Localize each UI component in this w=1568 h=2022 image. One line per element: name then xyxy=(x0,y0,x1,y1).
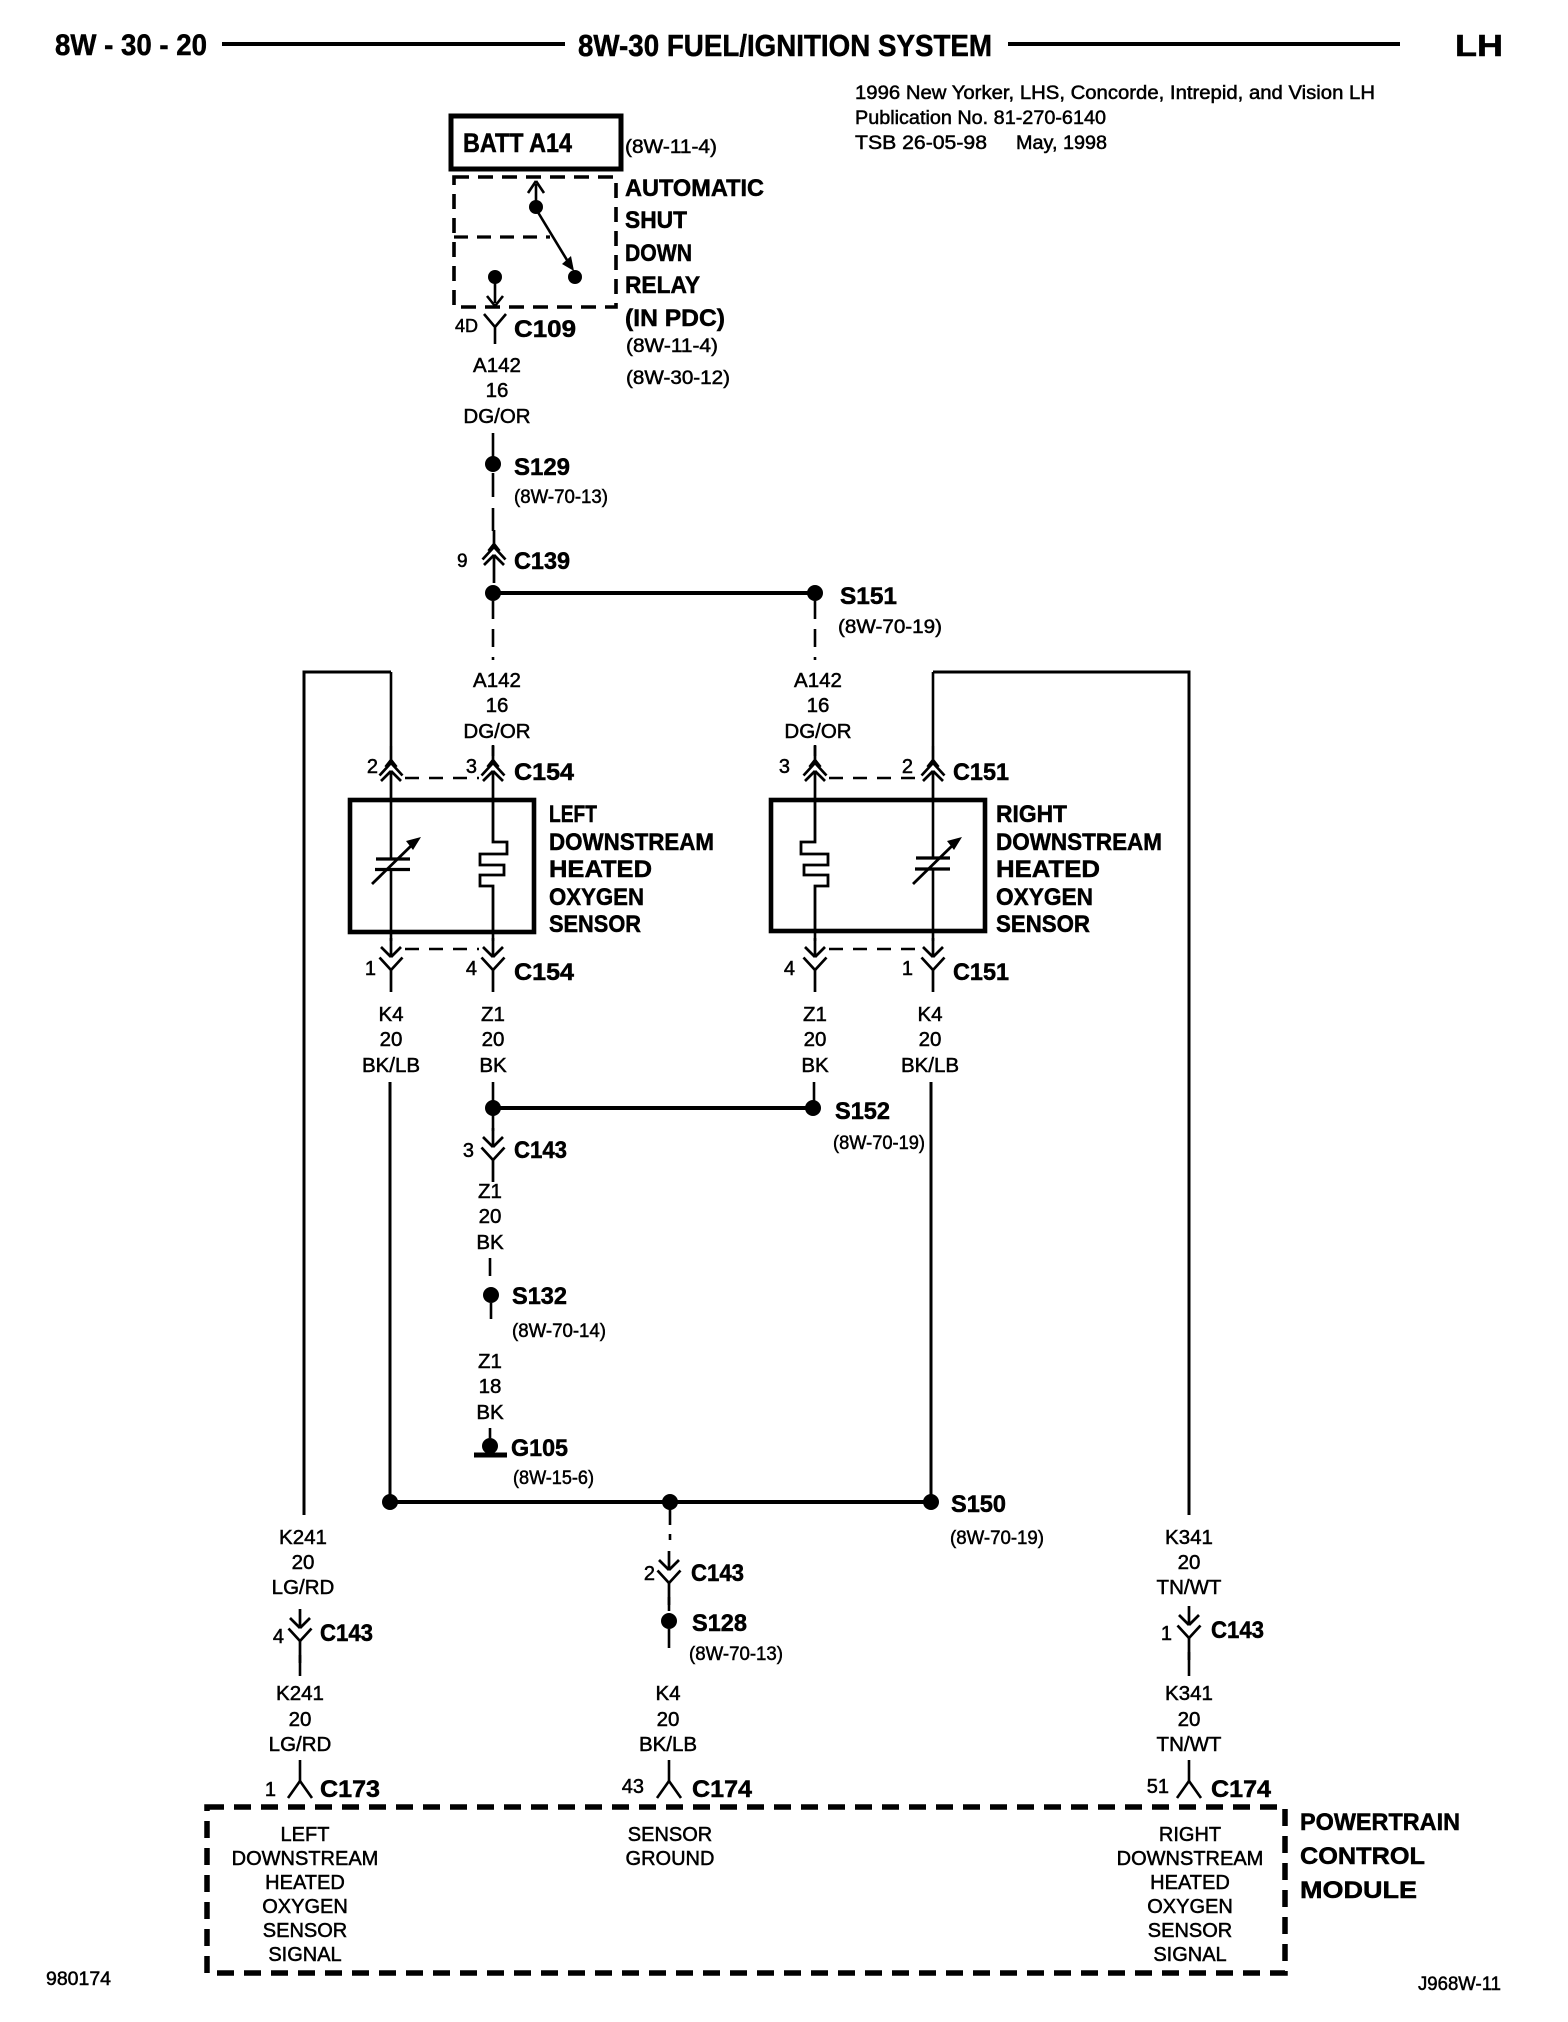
wire C143 pin2 to S128 xyxy=(668,1597,671,1611)
svg-text:9: 9 xyxy=(457,551,468,572)
svg-text:DG/OR: DG/OR xyxy=(463,405,530,428)
svg-text:AUTOMATIC: AUTOMATIC xyxy=(625,175,764,202)
svg-text:SENSOR: SENSOR xyxy=(263,1920,347,1942)
svg-text:4: 4 xyxy=(784,958,795,980)
svg-text:(8W-70-14): (8W-70-14) xyxy=(512,1321,606,1342)
svg-text:16: 16 xyxy=(486,694,509,717)
svg-text:K241: K241 xyxy=(279,1526,327,1549)
battery feed box BATT A14 xyxy=(451,116,717,169)
connector C151 top row pins 3,2 xyxy=(779,746,1009,799)
svg-text:S129: S129 xyxy=(514,454,570,481)
wire A142 16 DG/OR label (right branch) xyxy=(784,669,851,743)
relay K1 automatic shut down relay (in PDC) dashed box xyxy=(454,177,616,307)
svg-text:980174: 980174 xyxy=(46,1969,111,1990)
svg-text:4D: 4D xyxy=(455,316,478,336)
svg-text:LG/RD: LG/RD xyxy=(269,1733,332,1756)
svg-text:A142: A142 xyxy=(794,669,842,692)
svg-text:(8W-70-19): (8W-70-19) xyxy=(950,1528,1044,1549)
svg-text:K341: K341 xyxy=(1165,1682,1213,1705)
svg-text:SENSOR: SENSOR xyxy=(549,911,641,938)
connector C109 pin 4D xyxy=(455,314,576,344)
wire Z1 20 BK label (below C143) xyxy=(476,1180,504,1254)
wire left pin3 stub xyxy=(492,745,495,756)
svg-text:3: 3 xyxy=(463,1140,474,1162)
svg-text:K4: K4 xyxy=(917,1003,942,1026)
wire stub to S129 xyxy=(492,433,495,457)
wire junction to S151 xyxy=(493,591,815,595)
PCM pin function text right xyxy=(1117,1824,1264,1966)
svg-text:C143: C143 xyxy=(514,1137,567,1164)
svg-text:DOWNSTREAM: DOWNSTREAM xyxy=(996,829,1162,856)
wire to S132 xyxy=(489,1258,492,1276)
wire right K4 down to S150 xyxy=(930,1082,933,1502)
wire right signal branch corner xyxy=(933,672,1189,1515)
connector C143 pin 1 xyxy=(1161,1606,1264,1660)
svg-text:OXYGEN: OXYGEN xyxy=(262,1896,348,1918)
PCM pin function text middle xyxy=(626,1824,715,1870)
svg-text:20: 20 xyxy=(1178,1708,1201,1731)
svg-text:MODULE: MODULE xyxy=(1300,1877,1417,1904)
svg-text:BK/LB: BK/LB xyxy=(639,1733,697,1756)
splice S132 xyxy=(483,1283,606,1342)
splice S128 xyxy=(661,1610,783,1665)
wire A142 16 DG/OR label (left branch) xyxy=(463,669,530,743)
svg-text:18: 18 xyxy=(479,1375,502,1398)
svg-text:(8W-15-6): (8W-15-6) xyxy=(513,1468,594,1489)
svg-text:20: 20 xyxy=(1178,1551,1201,1574)
svg-text:C151: C151 xyxy=(953,759,1009,786)
svg-text:May, 1998: May, 1998 xyxy=(1016,133,1107,154)
svg-text:SIGNAL: SIGNAL xyxy=(1153,1944,1226,1966)
relay common pivot node xyxy=(529,200,543,214)
svg-text:2: 2 xyxy=(367,756,378,778)
svg-text:RELAY: RELAY xyxy=(625,272,700,299)
wire S152 junction into C143 pin3 xyxy=(492,1115,495,1131)
wire to G105 xyxy=(489,1428,492,1438)
svg-text:BK: BK xyxy=(476,1231,504,1254)
wire Z1 18 BK label xyxy=(476,1350,504,1424)
svg-text:C174: C174 xyxy=(1211,1776,1272,1803)
connector C143 pin 3 xyxy=(463,1128,567,1182)
svg-text:DOWNSTREAM: DOWNSTREAM xyxy=(1117,1848,1264,1870)
connector C173 pin 1 xyxy=(265,1760,380,1803)
splice S150 xyxy=(923,1491,1044,1549)
svg-text:K241: K241 xyxy=(276,1682,324,1705)
svg-text:C143: C143 xyxy=(1211,1617,1264,1644)
svg-text:C151: C151 xyxy=(953,959,1009,986)
svg-text:S150: S150 xyxy=(951,1491,1006,1518)
svg-text:16: 16 xyxy=(807,694,830,717)
svg-text:J968W-11: J968W-11 xyxy=(1418,1974,1501,1995)
svg-text:3: 3 xyxy=(779,756,790,778)
svg-text:BK/LB: BK/LB xyxy=(362,1054,420,1077)
svg-text:4: 4 xyxy=(273,1626,284,1648)
wire right box pin4 into box xyxy=(814,931,817,941)
svg-text:8W - 30 - 20: 8W - 30 - 20 xyxy=(55,29,207,62)
svg-text:51: 51 xyxy=(1147,1776,1169,1798)
svg-text:BATT A14: BATT A14 xyxy=(463,128,572,158)
svg-text:1: 1 xyxy=(365,958,376,980)
svg-text:Z1: Z1 xyxy=(803,1003,827,1026)
svg-text:POWERTRAIN: POWERTRAIN xyxy=(1300,1809,1460,1836)
svg-text:SENSOR: SENSOR xyxy=(996,911,1090,938)
svg-text:2: 2 xyxy=(902,756,913,778)
svg-text:(8W-70-19): (8W-70-19) xyxy=(833,1133,925,1154)
junction node left of S152 xyxy=(485,1100,501,1116)
PCM name text xyxy=(1300,1809,1460,1904)
svg-text:1996 New Yorker, LHS, Concorde: 1996 New Yorker, LHS, Concorde, Intrepid… xyxy=(855,83,1375,104)
relay switch blade xyxy=(536,209,574,271)
svg-text:C174: C174 xyxy=(692,1776,753,1803)
svg-text:(8W-11-4): (8W-11-4) xyxy=(625,137,717,158)
svg-text:(8W-70-19): (8W-70-19) xyxy=(838,617,942,638)
svg-text:SENSOR: SENSOR xyxy=(1148,1920,1232,1942)
svg-text:DOWNSTREAM: DOWNSTREAM xyxy=(549,829,714,856)
splice S152 xyxy=(805,1098,925,1154)
svg-text:OXYGEN: OXYGEN xyxy=(1147,1896,1233,1918)
svg-text:43: 43 xyxy=(622,1776,644,1798)
wire K4 20 BK/LB label (left) xyxy=(362,1003,420,1077)
wire Z1 20 BK label (left) xyxy=(479,1003,507,1077)
relay output contact node xyxy=(568,270,582,284)
ground G105 xyxy=(474,1435,594,1489)
svg-text:C154: C154 xyxy=(514,959,575,986)
svg-text:LEFT: LEFT xyxy=(281,1824,330,1846)
svg-text:Publication No. 81-270-6140: Publication No. 81-270-6140 xyxy=(855,108,1106,129)
svg-text:CONTROL: CONTROL xyxy=(1300,1843,1425,1870)
wire K341 20 TN/WT label (upper) xyxy=(1157,1526,1222,1599)
svg-text:BK: BK xyxy=(801,1054,829,1077)
svg-text:(8W-11-4): (8W-11-4) xyxy=(626,336,718,357)
svg-text:Z1: Z1 xyxy=(478,1350,502,1373)
right sensor name text xyxy=(996,801,1162,938)
svg-text:S151: S151 xyxy=(840,583,897,610)
svg-text:Z1: Z1 xyxy=(481,1003,505,1026)
svg-text:(8W-70-13): (8W-70-13) xyxy=(514,487,608,508)
wire C143 pin1 down xyxy=(1188,1652,1191,1676)
svg-text:C109: C109 xyxy=(514,316,576,343)
connector C143 pin 2 xyxy=(644,1551,744,1605)
connector C174 pin 43 xyxy=(622,1760,753,1803)
svg-text:(8W-30-12): (8W-30-12) xyxy=(626,368,730,389)
svg-text:1: 1 xyxy=(265,1779,276,1801)
svg-text:A142: A142 xyxy=(473,669,521,692)
junction node below C139 xyxy=(485,585,501,601)
wire from S150 middle junction down xyxy=(669,1509,672,1540)
svg-text:GROUND: GROUND xyxy=(626,1848,715,1870)
wire K241 20 LG/RD label (lower) xyxy=(269,1682,332,1756)
svg-text:(8W-70-13): (8W-70-13) xyxy=(689,1644,783,1665)
wire left box pin4 into box xyxy=(492,932,495,941)
svg-text:2: 2 xyxy=(644,1563,655,1585)
left sensor variable element xyxy=(372,800,414,932)
connector C154 top row pins 2,3 xyxy=(367,746,575,799)
svg-text:DOWNSTREAM: DOWNSTREAM xyxy=(232,1848,379,1870)
svg-text:3: 3 xyxy=(466,756,477,778)
right sensor heater element xyxy=(801,800,828,931)
junction node middle of S150 line xyxy=(662,1494,678,1510)
svg-text:K341: K341 xyxy=(1165,1526,1213,1549)
svg-text:C173: C173 xyxy=(320,1776,380,1803)
svg-text:SHUT: SHUT xyxy=(625,207,687,234)
relay output terminal down arrow xyxy=(487,283,503,306)
svg-text:4: 4 xyxy=(466,958,477,980)
svg-text:HEATED: HEATED xyxy=(265,1872,345,1894)
svg-text:S128: S128 xyxy=(692,1610,747,1637)
splice S151 xyxy=(807,583,942,638)
svg-text:LEFT: LEFT xyxy=(549,801,597,828)
wire right pin3 stub xyxy=(814,745,817,756)
svg-text:C154: C154 xyxy=(514,759,575,786)
connector C174 pin 51 xyxy=(1147,1760,1272,1803)
relay output terminal node xyxy=(488,270,502,284)
left sensor heater element xyxy=(480,800,507,932)
svg-text:16: 16 xyxy=(486,379,509,402)
connector C143 pin 4 xyxy=(273,1609,373,1663)
left sensor name text xyxy=(549,801,714,938)
right sensor variable element xyxy=(913,800,955,931)
svg-text:TSB 26-05-98: TSB 26-05-98 xyxy=(855,133,987,154)
svg-text:(IN PDC): (IN PDC) xyxy=(625,305,725,332)
svg-text:20: 20 xyxy=(919,1028,942,1051)
svg-text:RIGHT: RIGHT xyxy=(996,801,1067,828)
header title row xyxy=(55,28,1503,63)
svg-text:SIGNAL: SIGNAL xyxy=(268,1944,341,1966)
svg-text:20: 20 xyxy=(479,1205,502,1228)
svg-text:K4: K4 xyxy=(655,1682,680,1705)
svg-text:SENSOR: SENSOR xyxy=(628,1824,712,1846)
svg-text:S152: S152 xyxy=(835,1098,890,1125)
connector C139 pin 9 xyxy=(457,530,570,583)
svg-text:1: 1 xyxy=(902,958,913,980)
right downstream heated oxygen sensor box xyxy=(771,800,985,931)
svg-text:TN/WT: TN/WT xyxy=(1157,1576,1222,1599)
wire C143 pin4 down xyxy=(299,1655,302,1676)
svg-text:C139: C139 xyxy=(514,548,570,575)
svg-text:1: 1 xyxy=(1161,1623,1172,1645)
wire S150 bus line xyxy=(390,1500,931,1504)
svg-text:A142: A142 xyxy=(473,354,521,377)
wire left Z1 stub to junction xyxy=(492,1082,495,1101)
publication info block xyxy=(855,83,1375,154)
wire S129 to C139 xyxy=(492,473,495,531)
svg-text:C143: C143 xyxy=(320,1620,373,1647)
wire Z1 20 BK label (right) xyxy=(801,1003,829,1077)
wire right box pin1 into box xyxy=(932,931,935,941)
svg-text:HEATED: HEATED xyxy=(996,856,1100,883)
wire left sensor pin2 riser xyxy=(390,672,393,746)
svg-text:BK: BK xyxy=(479,1054,507,1077)
PCM pin function text left xyxy=(232,1824,379,1966)
svg-text:HEATED: HEATED xyxy=(1150,1872,1230,1894)
junction node left end of S150 line xyxy=(382,1494,398,1510)
svg-text:LH: LH xyxy=(1455,28,1503,63)
svg-text:TN/WT: TN/WT xyxy=(1157,1733,1222,1756)
connector C154 bottom row pins 1,4 xyxy=(365,938,575,992)
powertrain control module dashed box xyxy=(207,1807,1285,1973)
svg-text:OXYGEN: OXYGEN xyxy=(996,884,1093,911)
svg-text:HEATED: HEATED xyxy=(549,856,652,883)
svg-text:20: 20 xyxy=(292,1551,315,1574)
svg-text:BK/LB: BK/LB xyxy=(901,1054,959,1077)
relay name text xyxy=(625,175,764,332)
wire left K4 down to S150 line xyxy=(389,1082,392,1502)
svg-text:G105: G105 xyxy=(511,1435,568,1462)
wire left box pin1 into box xyxy=(390,932,393,941)
svg-text:20: 20 xyxy=(289,1708,312,1731)
wire right Z1 stub to S152 xyxy=(813,1082,816,1101)
svg-text:20: 20 xyxy=(804,1028,827,1051)
svg-text:S132: S132 xyxy=(512,1283,567,1310)
wire left signal branch corner xyxy=(304,672,391,1515)
wire junction to S152 xyxy=(493,1106,813,1110)
wire junction down to left A142 label xyxy=(492,601,495,660)
connector C151 bottom row pins 4,1 xyxy=(784,938,1009,992)
splice S129 xyxy=(485,454,608,508)
svg-text:20: 20 xyxy=(380,1028,403,1051)
wire K241 20 LG/RD label (upper) xyxy=(272,1526,335,1599)
left downstream heated oxygen sensor box xyxy=(350,800,534,932)
svg-text:K4: K4 xyxy=(378,1003,403,1026)
wire K341 20 TN/WT label (lower) xyxy=(1157,1682,1222,1756)
svg-text:OXYGEN: OXYGEN xyxy=(549,884,644,911)
svg-text:8W-30 FUEL/IGNITION SYSTEM: 8W-30 FUEL/IGNITION SYSTEM xyxy=(578,28,992,63)
svg-text:DG/OR: DG/OR xyxy=(784,720,851,743)
svg-text:C143: C143 xyxy=(691,1560,744,1587)
svg-text:DG/OR: DG/OR xyxy=(463,720,530,743)
relay coil terminal arrow to BATT xyxy=(528,181,544,207)
wire S151 down to right A142 label xyxy=(814,601,817,660)
svg-text:20: 20 xyxy=(482,1028,505,1051)
wire A142 16 DG/OR label (upper) xyxy=(463,354,530,428)
svg-text:BK: BK xyxy=(476,1401,504,1424)
svg-text:Z1: Z1 xyxy=(478,1180,502,1203)
wire K4 20 BK/LB label (lower) xyxy=(639,1682,697,1756)
svg-text:LG/RD: LG/RD xyxy=(272,1576,335,1599)
svg-text:RIGHT: RIGHT xyxy=(1159,1824,1221,1846)
svg-text:DOWN: DOWN xyxy=(625,240,692,267)
wire K4 20 BK/LB label (right) xyxy=(901,1003,959,1077)
wire right sensor pin2 riser xyxy=(932,672,935,746)
svg-text:20: 20 xyxy=(657,1708,680,1731)
